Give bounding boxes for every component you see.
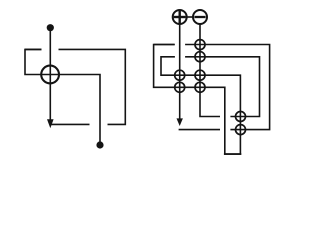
minus source node M1 (right figure)	[193, 10, 207, 24]
wire column from P1 down through X4 X6 to arrow	[179, 24, 181, 119]
plus sign horizontal bar of P1	[174, 16, 186, 18]
wire link between P1 and M1	[187, 16, 193, 18]
arrowhead down right figure	[177, 118, 183, 126]
XOR node X4 at row3 col180	[175, 70, 185, 80]
wire row6 left segment from arrow corner	[179, 129, 220, 131]
wire run: column from M1 down then right along row5	[200, 24, 220, 116]
XOR node X7 at row4 col200	[195, 82, 205, 92]
XOR node X6 at row4 col180	[175, 82, 185, 92]
XOR node X3 at row2 col200	[195, 52, 205, 62]
wire run: left bracket, horizontal through XOR, vertical down to node B	[25, 49, 100, 145]
XOR node X8 at row5 col240	[236, 112, 246, 122]
wire run: big loop (row2 left, inner bracket, row3, col240 down, bottom U, col224 up, row4, outer bracket, row1 left start)	[154, 45, 241, 155]
wire bottom horizontal left segment, left figure	[50, 123, 89, 125]
XOR node X1 (left figure)	[41, 66, 59, 84]
node B (bottom dot, left figure)	[96, 141, 103, 148]
wire run: row2 right segment, right inner vertical, row5 right segment	[185, 57, 259, 117]
plus sign vertical bar of P1	[178, 11, 180, 23]
wire vertical main left figure (dot to arrow)	[49, 28, 51, 120]
wire bottom U overhang	[224, 153, 241, 155]
arrowhead down left figure	[47, 119, 54, 128]
wire row1 left segment	[154, 44, 175, 46]
node A (top dot, left figure)	[47, 24, 54, 31]
minus sign bar of M1	[194, 16, 205, 18]
wire run: top horizontal right segment, right vertical, bottom stub	[59, 49, 126, 124]
XOR node X9 at row6 col240	[236, 125, 246, 135]
XOR node X5 at row3 col200	[195, 70, 205, 80]
plus source node P1 (right figure)	[173, 10, 187, 24]
wire top horizontal left segment, left figure	[25, 48, 42, 50]
XOR node X2 at row1 col200	[195, 40, 205, 50]
wire run: row1 right segment, right outer vertical, row6 right segment	[185, 45, 270, 130]
